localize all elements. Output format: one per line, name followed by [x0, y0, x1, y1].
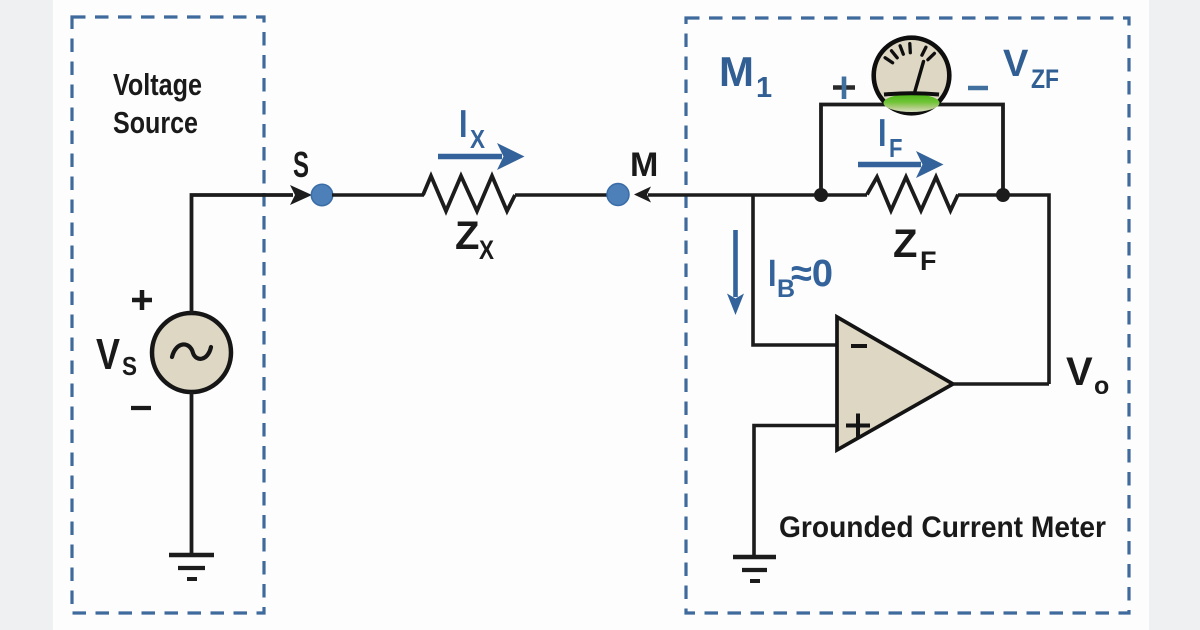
wire: op-amp output — [953, 382, 1049, 386]
wire: node S to resistor ZX — [332, 193, 424, 197]
meter green scale — [884, 94, 940, 112]
meter needle — [915, 62, 924, 92]
svg-text:V: V — [1066, 350, 1093, 394]
minus sign of source — [131, 406, 151, 410]
svg-text:I: I — [459, 103, 468, 146]
wire: right junction to output drop — [1003, 195, 1049, 384]
svg-text:F: F — [889, 133, 903, 163]
plus sign of source — [132, 290, 152, 310]
wire: node M into meter box to left junction — [648, 193, 821, 197]
svg-text:ZF: ZF — [1031, 64, 1059, 94]
resistor ZF — [867, 177, 958, 211]
meter tick marks — [885, 44, 934, 63]
svg-text:Z: Z — [455, 214, 479, 258]
svg-text:F: F — [920, 246, 937, 276]
minus sign right of meter — [968, 86, 988, 90]
junction dot right of ZF — [996, 188, 1010, 202]
current arrow IF — [858, 162, 921, 168]
op-amp inverting mark — [851, 344, 867, 348]
voltage source VS circle — [152, 313, 231, 392]
arrowhead into node M — [634, 187, 651, 203]
wire: non-inverting input to ground — [754, 426, 837, 557]
wire: main line left junction to right junction (under ZF) — [821, 193, 867, 197]
svg-text:Voltage: Voltage — [113, 67, 202, 102]
svg-text:X: X — [470, 124, 486, 154]
node S — [311, 184, 332, 205]
op-amp U1 — [837, 317, 953, 450]
meter scale chord line — [884, 93, 939, 94]
svg-text:S: S — [293, 144, 309, 185]
plus sign left of meter — [833, 85, 855, 89]
node M — [607, 184, 629, 206]
svg-text:V: V — [1003, 43, 1029, 85]
svg-text:≈0: ≈0 — [791, 253, 833, 295]
arrowhead into node S — [290, 185, 312, 205]
wire: inverting input drop from main line — [753, 195, 837, 345]
ground symbol (voltage source) — [169, 553, 214, 558]
svg-text:S: S — [122, 351, 137, 381]
svg-text:o: o — [1094, 372, 1109, 400]
wire: source top up and right to node S — [192, 195, 294, 314]
wire: resistor ZX to node M — [515, 193, 608, 197]
op-amp non-inverting mark — [846, 414, 870, 438]
junction dot left of ZF — [814, 188, 828, 202]
svg-text:1: 1 — [756, 72, 772, 104]
svg-text:V: V — [96, 330, 121, 379]
meter M1 body — [874, 38, 950, 114]
resistor ZX — [423, 176, 515, 211]
svg-text:Z: Z — [893, 222, 917, 266]
wire: source bottom to ground — [190, 392, 194, 553]
svg-text:I: I — [878, 112, 887, 155]
current arrow IB (downward) — [733, 230, 738, 297]
svg-text:I: I — [768, 253, 777, 295]
enclosure: voltage source dashed box — [72, 17, 264, 613]
sine symbol inside source — [172, 344, 211, 358]
wire: meter loop — [821, 105, 1003, 196]
enclosure: grounded current meter dashed box — [686, 18, 1129, 613]
svg-text:M: M — [719, 48, 754, 95]
current arrow IX — [438, 154, 502, 160]
ground symbol (current meter) — [733, 555, 776, 560]
svg-text:M: M — [630, 146, 658, 184]
svg-text:Source: Source — [113, 105, 198, 140]
svg-text:Grounded Current Meter: Grounded Current Meter — [779, 511, 1106, 544]
svg-text:X: X — [479, 235, 494, 265]
